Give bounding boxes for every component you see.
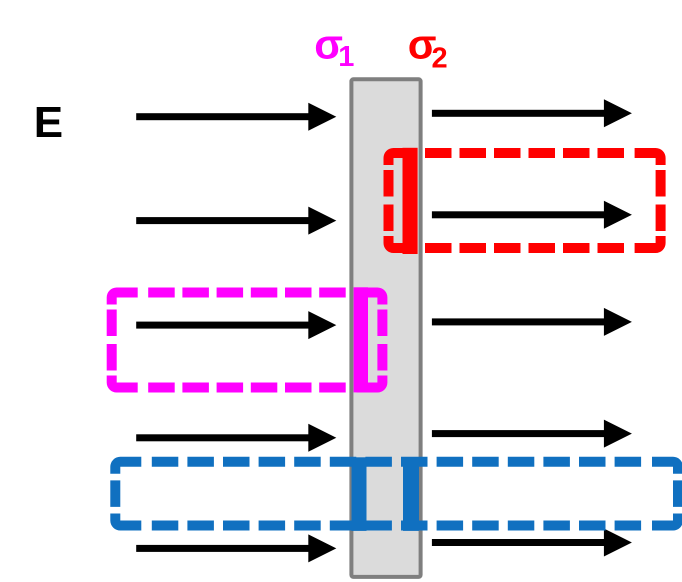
blue gaussian box left end-cap bar: [352, 457, 367, 531]
svg-text:2: 2: [432, 42, 448, 74]
red gaussian box bottom-left corner: [384, 236, 415, 253]
svg-text:1: 1: [338, 41, 354, 73]
blue gaussian box top edge: [152, 457, 642, 467]
field arrow left 1: [136, 113, 310, 120]
field arrow right 1: [432, 110, 606, 117]
svg-text:E: E: [34, 98, 63, 147]
charged slab: [351, 79, 420, 577]
magenta gaussian box right edge: [377, 310, 387, 371]
magenta gaussian box bottom-right corner: [356, 376, 387, 393]
field arrow left 4: [136, 434, 310, 441]
blue gaussian box left edge: [110, 480, 120, 507]
field arrow left 3: [136, 322, 310, 329]
blue gaussian box bottom-left corner: [110, 514, 141, 531]
blue gaussian box right edge: [673, 480, 682, 507]
field arrow right 2: [432, 211, 606, 218]
red gaussian box right edge: [656, 170, 666, 231]
magenta gaussian box bottom edge: [148, 383, 346, 393]
magenta gaussian box top-left corner: [107, 288, 138, 305]
red gaussian box left edge: [384, 170, 394, 231]
red gaussian box top-left corner: [384, 148, 415, 165]
blue gaussian box bottom edge: [152, 521, 642, 531]
magenta gaussian box left edge: [107, 310, 117, 371]
magenta gaussian box top-right corner: [356, 288, 387, 305]
blue gaussian box top-right corner: [652, 457, 682, 474]
red gaussian box top edge: [425, 148, 624, 158]
magenta gaussian box top edge: [148, 288, 346, 298]
blue gaussian box right end-cap bar: [403, 457, 419, 531]
field arrow left 5: [136, 545, 310, 552]
blue gaussian box top-left corner: [110, 457, 141, 474]
field arrow right 4: [432, 430, 606, 437]
field arrow right 5: [432, 539, 606, 546]
red gaussian box end-cap bar: [403, 148, 418, 254]
red gaussian box top-right corner: [635, 148, 666, 165]
red gaussian box bottom-right corner: [635, 236, 666, 253]
magenta gaussian box end-cap bar: [354, 287, 368, 392]
blue gaussian box bottom-right corner: [652, 514, 682, 531]
field arrow left 2: [136, 217, 310, 224]
magenta gaussian box bottom-left corner: [107, 376, 138, 393]
red gaussian box bottom edge: [425, 243, 624, 253]
field arrow right 3: [432, 318, 606, 325]
